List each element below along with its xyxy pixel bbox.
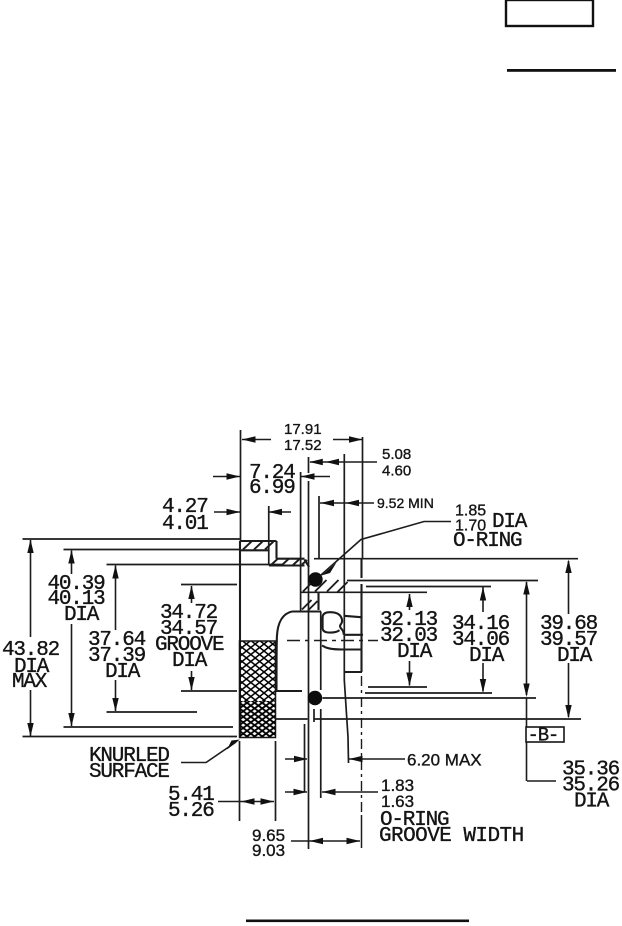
svg-text:SURFACE: SURFACE: [89, 761, 169, 784]
svg-text:6.99: 6.99: [249, 477, 295, 500]
svg-text:MAX: MAX: [12, 671, 48, 694]
svg-text:9.03: 9.03: [252, 841, 285, 860]
svg-text:17.52: 17.52: [284, 437, 322, 454]
svg-text:DIA: DIA: [397, 641, 433, 664]
svg-text:4.60: 4.60: [382, 463, 411, 480]
svg-text:4.01: 4.01: [162, 513, 208, 536]
svg-text:GROOVE WIDTH: GROOVE WIDTH: [379, 825, 524, 848]
svg-text:6.20 MAX: 6.20 MAX: [407, 751, 482, 770]
svg-text:5.26: 5.26: [168, 800, 214, 823]
svg-text:DIA: DIA: [172, 650, 208, 673]
svg-text:DIA: DIA: [64, 604, 100, 627]
svg-text:-B-: -B-: [528, 725, 559, 747]
svg-text:9.52 MIN: 9.52 MIN: [377, 495, 434, 511]
svg-text:DIA: DIA: [557, 645, 593, 668]
svg-text:17.91: 17.91: [284, 421, 322, 438]
svg-text:O-RING: O-RING: [453, 530, 522, 553]
svg-text:DIA: DIA: [574, 791, 610, 814]
svg-text:DIA: DIA: [105, 661, 141, 684]
svg-text:DIA: DIA: [469, 645, 505, 668]
svg-text:5.08: 5.08: [382, 446, 411, 463]
